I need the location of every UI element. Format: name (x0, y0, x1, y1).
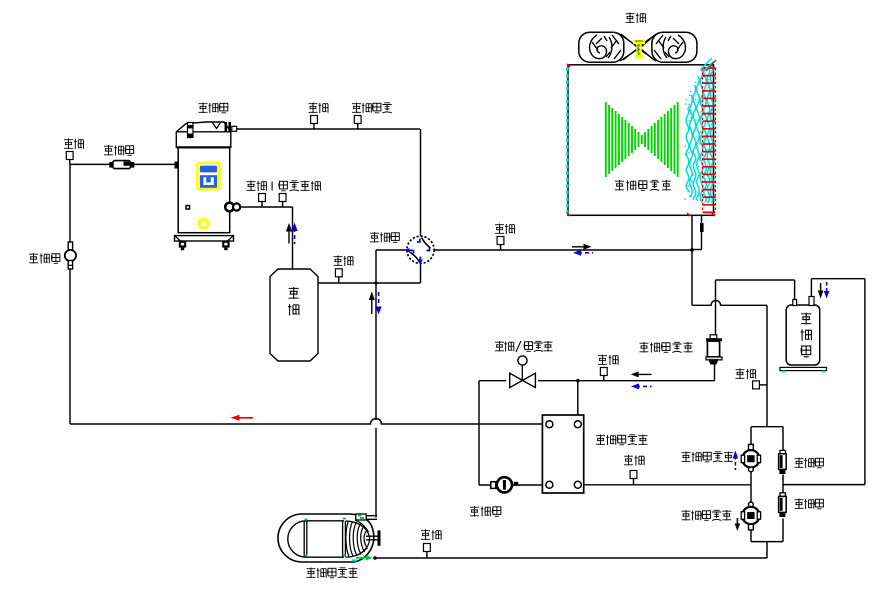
wire right loop to check valve branch (783, 484, 865, 486)
junction dot (liquid line at x577) (576, 379, 580, 383)
fan right blade swirl (654, 35, 685, 59)
flow arrow blue left dashed (y250) (573, 250, 593, 256)
subcooler port top-left (546, 421, 553, 428)
compressor foot right (222, 241, 229, 250)
label cooling TXV 制冷膨胀阀 (682, 510, 732, 521)
air HX green fin pattern (606, 102, 678, 177)
label receiver 储液器 (vertical) (801, 313, 812, 357)
flow arrow blue up dashed (suction riser) (292, 223, 298, 245)
wire liquid line left of valve (479, 380, 506, 382)
compressor yellow mark (199, 219, 208, 228)
wire manifold right branch lower (782, 519, 784, 542)
high pressure switch tap (354, 116, 361, 124)
compressor top band (176, 122, 231, 147)
flow arrow blue down dashed (receiver) (824, 282, 830, 299)
gas separator tank (270, 269, 318, 361)
needle valve NV1 stem (69, 160, 71, 165)
compressor logo outer (197, 163, 219, 189)
fan hub dark marks (635, 41, 643, 53)
drying filter (706, 335, 722, 364)
label needle valve NV1 针阀 (64, 139, 84, 150)
label needle valve NV5 针阀 (495, 224, 515, 235)
compressor foot left (179, 241, 186, 250)
label subcooler 过冷回热器 (596, 435, 647, 446)
wire bottom liquid line (375, 557, 767, 559)
subcooler port bottom-left (546, 481, 553, 488)
flow arrow black down (cooling TXV) (735, 518, 741, 531)
wire four-way valve left port to x376 (376, 249, 407, 251)
sight glass (65, 242, 76, 269)
label needle valve NV7 针阀 (736, 369, 756, 380)
needle valve NV2 stem (313, 124, 315, 130)
junction air HX outlet pipe blob (700, 223, 704, 232)
wire receiver right port line up (810, 279, 812, 297)
compressor suction port (225, 203, 240, 212)
label needle valve NV9 针阀 (421, 530, 441, 541)
compressor top left fitting (188, 123, 194, 138)
needle valve NV5 (497, 237, 504, 245)
air HX left cyan tubes (566, 67, 568, 214)
wire receiver left port line up (794, 280, 796, 300)
label check valve 单向阀 (104, 145, 134, 156)
wire manifold left branch upper (750, 427, 752, 445)
needle valve NV9 stem (426, 552, 428, 559)
fan hub yellow (633, 40, 645, 59)
subcooler port top-right (574, 421, 581, 428)
fan left blade (579, 32, 624, 62)
four-way valve internal passage top-right (422, 238, 431, 249)
wire outlet pipe jog (692, 249, 702, 251)
four-way valve blue mark top (417, 239, 420, 242)
wire x767 drop to manifold top (766, 305, 768, 427)
wire manifold bottom bar (751, 541, 783, 543)
label heating TXV 制热膨胀阀 (682, 452, 733, 463)
wire manifold left branch lower (750, 530, 752, 542)
label fan 风机 (626, 13, 646, 24)
fan left blade swirl (590, 35, 621, 59)
receiver base cyan marks (782, 371, 825, 373)
hand-solenoid valve bowtie (510, 373, 536, 387)
high pressure switch stem (357, 124, 359, 130)
receiver left port (793, 300, 797, 306)
compressor logo top bar (200, 166, 217, 173)
label drying filter 干燥过滤器 (640, 342, 693, 353)
four-way valve blue mark right (427, 248, 430, 251)
four-way valve blue arrow bottom (418, 257, 423, 265)
wire manifold top bar (751, 426, 783, 428)
wire x479 to expansion valve to plate HX (479, 484, 546, 486)
wire suction line vertical to gas separator (292, 207, 294, 269)
needle valve NV3 stem (261, 202, 263, 208)
tube HX top fitting (356, 514, 377, 520)
compressor discharge fitting (225, 122, 237, 131)
wire air HX outlet pipe 1 (691, 180, 693, 305)
heating TXV 制热膨胀阀 (741, 444, 760, 471)
wire discharge line vertical to four-way valve (420, 129, 422, 237)
air HX cyan coil scribble (686, 66, 713, 203)
wire economizer line horizontal (70, 163, 176, 165)
flow arrow black up (x376) (369, 292, 375, 315)
needle valve NV4 (335, 269, 342, 277)
wire x715 drop to drying filter (715, 280, 717, 335)
wire x376 long drop to tube HX lower (375, 428, 377, 518)
flow arrow black right (y250) (572, 244, 592, 250)
wire four-way right line (434, 249, 692, 251)
wire discharge line horizontal (237, 128, 421, 130)
wire x376 long drop to tube HX (375, 283, 377, 420)
needle valve NV7 (753, 381, 760, 389)
fan hub green dashes (638, 44, 640, 57)
label four-way valve 四通阀 (370, 232, 399, 243)
wire hot gas line to right manifold (hop at x=715.5) (692, 301, 767, 306)
compressor base plate (175, 236, 234, 241)
needle valve NV9 (424, 544, 431, 552)
fan blade cross lines (618, 33, 658, 61)
label compressor 压缩机 (199, 103, 228, 114)
needle valve NV8 stem (633, 479, 635, 485)
junction dot (x376 at y283) (374, 281, 377, 284)
label high pressure switch 高压开关 (352, 103, 392, 114)
label needle valve NV8 针阀 (624, 455, 644, 466)
tube HX right coil scribble (346, 520, 370, 557)
needle valve NV6 stem (603, 376, 605, 381)
needle valve NV3 (259, 194, 266, 202)
tube HX outer shell (278, 514, 374, 562)
wire four-way bottom riser (420, 264, 422, 284)
compressor small plate (185, 205, 190, 210)
tube HX inner shell (288, 521, 344, 557)
wire receiver right line horizontal (811, 278, 865, 280)
compressor band bottom weld line (176, 146, 231, 148)
label hand/solenoid valve 手阀/电磁阀 (495, 341, 553, 352)
subcooler plate HX body (542, 415, 583, 493)
air HX cyan speckle (684, 76, 715, 199)
cooling TXV 制冷膨胀阀 (741, 502, 760, 530)
hand-solenoid valve stem (521, 365, 523, 381)
label check valve CV2 单向阀 (795, 499, 824, 510)
tube HX divider 2 (343, 521, 346, 557)
tube HX divider green marks (305, 519, 346, 556)
receiver tank (786, 305, 820, 365)
flow arrow red left (long line) (231, 415, 254, 421)
air HX red tube ladder (703, 68, 716, 212)
wire left riser through sight glass (69, 164, 71, 424)
wire x376 riser down (375, 250, 377, 283)
wire air HX outlet pipe 2 (701, 209, 703, 250)
label needle valve NV4 针阀 (334, 256, 354, 267)
label needle valve and LP switch 针阀|低压开关 (247, 181, 321, 192)
wire gas separator outlet to four-way bottom loop (318, 282, 421, 284)
check valve CV2 (779, 493, 787, 517)
wire manifold bottom drop (766, 542, 768, 558)
subcooler port bottom-right (574, 481, 581, 488)
label needle valve NV2 针阀 (309, 103, 329, 114)
four-way valve internal passage left-bottom (410, 252, 420, 263)
compressor body (178, 148, 230, 233)
low pressure switch tap (279, 194, 286, 202)
label sight glass 视液镜 (29, 253, 60, 264)
junction dot (four-way right line at x692) (690, 248, 694, 252)
flow arrow blue left dashed (liquid line) (631, 383, 652, 389)
needle valve NV2 (311, 116, 318, 124)
wire manifold right branch upper (782, 427, 784, 451)
wire subcooler top feed drop x577 (577, 381, 579, 421)
air HX corner marks (567, 58, 716, 216)
four-way valve body (407, 236, 434, 263)
expansion valve EXV (491, 477, 518, 492)
four-way valve blue arrow left (405, 248, 414, 254)
tube HX right flange (366, 530, 381, 545)
hand-solenoid valve coil (518, 356, 527, 365)
label air HX 风侧换热器 (615, 180, 671, 191)
needle valve NV5 stem (500, 245, 502, 251)
needle valve NV1 (66, 152, 73, 160)
flow arrow black up (suction riser) (286, 223, 292, 244)
flow arrow blue up (heating TXV) (733, 451, 739, 471)
needle valve NV4 stem (338, 277, 340, 283)
flow arrow black left (liquid line) (631, 371, 652, 377)
tube HX divider 1 (304, 521, 307, 557)
compressor left port (175, 162, 179, 169)
label gas separator 气分 (vertical) (288, 287, 299, 315)
wire plate HX bottom out to TXV branch (582, 484, 752, 486)
receiver base (780, 367, 827, 370)
label check valve CV1 单向阀 (795, 458, 824, 469)
wire manifold left branch mid (750, 472, 752, 503)
wire suction line horizontal (240, 206, 293, 208)
fan right blade (652, 32, 697, 62)
label expansion valve 膨胀阀 (470, 506, 501, 517)
compressor dome base line (176, 131, 231, 133)
label tube HX 套管换热器 (307, 568, 358, 579)
wire manifold right branch mid (782, 475, 784, 494)
tube HX bottom outlet marks (352, 555, 377, 561)
label needle valve NV6 针阀 (598, 355, 618, 366)
wire filter outlet down (714, 364, 716, 381)
check valve CV-L (109, 161, 134, 169)
wire right loop riser x865 (864, 279, 866, 485)
wire liquid line right segment (538, 380, 715, 382)
low pressure switch stem (282, 202, 284, 208)
flow arrow black down (receiver) (818, 283, 824, 299)
flow arrow blue down dashed (x376) (376, 292, 382, 315)
air HX shell (568, 65, 714, 216)
needle valve NV7 stem (759, 384, 767, 386)
wire x479 drop (478, 381, 480, 485)
receiver right port (809, 297, 814, 306)
needle valve NV8 (630, 471, 637, 479)
wire receiver feed line horizontal (716, 279, 795, 281)
compressor dome notch (213, 123, 221, 129)
check valve CV1 (779, 450, 787, 474)
compressor logo lower block (200, 175, 217, 188)
wire long liquid line to subcooler (hop at x=376) (70, 419, 546, 425)
needle valve NV6 (600, 368, 607, 376)
